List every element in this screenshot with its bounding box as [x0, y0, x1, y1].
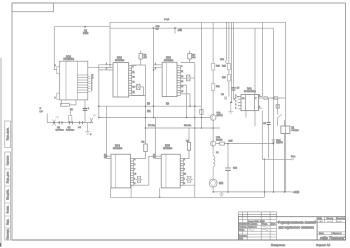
IC DD3 pin numbers — [155, 63, 183, 93]
resistor R13 — [227, 75, 230, 81]
svg-text:0,068мк: 0,068мк — [56, 129, 64, 131]
wire mid vertical x195 — [194, 63, 196, 186]
svg-text:Формирователь команд: Формирователь команд — [278, 221, 317, 225]
svg-text:2: 2 — [184, 159, 185, 161]
wire bottom bus1 — [213, 191, 291, 193]
svg-text:Лист: Лист — [319, 233, 324, 235]
inductor L1 — [213, 150, 215, 179]
svg-text:4: 4 — [184, 164, 185, 166]
svg-text:Вз.инв.: Вз.инв. — [8, 205, 10, 213]
wire vcc rail2 — [110, 27, 273, 29]
resistor R9 — [183, 128, 191, 159]
transistor VT2 — [211, 141, 216, 150]
wire ladder drop DD4 — [130, 186, 132, 197]
svg-text:С8: С8 — [221, 94, 225, 96]
resistor R12 — [227, 64, 230, 70]
paper corner mark — [0, 243, 2, 247]
svg-text:14: 14 — [181, 86, 183, 88]
svg-text:10: 10 — [184, 174, 186, 176]
resistor R2 vertical — [69, 110, 72, 123]
IC DA1 pin numbers — [235, 95, 260, 110]
wire mid bus1 — [99, 105, 201, 107]
title block right grid — [317, 217, 345, 235]
ground gnd2 — [228, 102, 233, 113]
svg-text:13: 13 — [181, 81, 183, 83]
svg-text:R5: R5 — [147, 104, 151, 106]
svg-text:Перв. прим.: Перв. прим. — [8, 127, 10, 140]
svg-text:+: + — [88, 107, 90, 110]
svg-text:SB1: SB1 — [220, 59, 225, 61]
svg-text:12: 12 — [133, 76, 135, 78]
svg-text:DA1: DA1 — [247, 88, 252, 91]
diode VD1 — [132, 84, 144, 95]
wire vcc rail1 — [110, 21, 286, 23]
svg-text:КТ361: КТ361 — [217, 115, 224, 117]
svg-text:0,068мк: 0,068мк — [66, 129, 74, 131]
IC DD1 pin numbers — [55, 65, 94, 100]
svg-text:К176ИЕ4: К176ИЕ4 — [164, 60, 174, 62]
resistor R15 — [220, 142, 225, 145]
node right row — [273, 97, 275, 99]
wire mid connector — [262, 111, 292, 160]
svg-text:R12: R12 — [222, 66, 227, 68]
svg-text:DD3: DD3 — [166, 57, 171, 60]
resistor R1 — [61, 100, 77, 106]
svg-text:15: 15 — [181, 91, 183, 93]
left margin boxes lower — [5, 152, 11, 240]
wire drop x153 — [153, 28, 155, 117]
capacitor C2 — [56, 121, 64, 131]
svg-text:1М: 1М — [192, 57, 195, 59]
svg-text:Подп.: Подп. — [8, 219, 10, 225]
wire DD5 left bus — [155, 118, 157, 159]
diode VD5 box — [276, 105, 280, 109]
svg-text:1,0: 1,0 — [40, 111, 44, 113]
svg-text:12: 12 — [181, 76, 183, 78]
svg-text:R11: R11 — [216, 86, 221, 88]
capacitor C9 — [264, 97, 268, 100]
capacitor C10 — [274, 97, 278, 100]
svg-text:С9: С9 — [263, 123, 267, 125]
IC DD2 — [109, 63, 137, 97]
wire vertical x145 — [132, 65, 146, 144]
node x153 junction — [153, 69, 155, 71]
left margin box upper — [5, 121, 11, 148]
svg-text:Подп.: Подп. — [262, 224, 268, 226]
svg-text:1: 1 — [155, 63, 156, 65]
svg-text:Масштаб: Масштаб — [336, 218, 346, 220]
svg-text:С4: С4 — [78, 127, 82, 129]
wire right long vertical — [285, 22, 287, 192]
svg-text:1: 1 — [134, 178, 135, 180]
relay K1 — [281, 120, 290, 192]
svg-text:1: 1 — [184, 178, 185, 180]
svg-text:ВА1: ВА1 — [219, 182, 224, 185]
svg-text:13: 13 — [153, 157, 155, 159]
node VT area — [145, 105, 214, 128]
svg-text:13: 13 — [133, 81, 135, 83]
svg-text:сайт "Паяльник": сайт "Паяльник" — [320, 236, 346, 240]
resistor R8 — [134, 142, 148, 159]
wire rail2 right vertical — [272, 28, 274, 192]
ground gnd3 — [219, 192, 224, 197]
svg-text:Вых: Вых — [291, 156, 296, 158]
capacitor C5 polar — [83, 100, 90, 123]
svg-text:КД522: КД522 — [276, 142, 283, 144]
node DD2 pins — [109, 64, 110, 65]
svg-text:Инв.подл.: Инв.подл. — [8, 228, 10, 239]
resistor R12 lead — [228, 70, 230, 75]
svg-text:1М: 1М — [144, 57, 147, 59]
svg-text:1: 1 — [235, 107, 236, 109]
svg-text:R13: R13 — [222, 77, 227, 79]
wire bottom left bus — [47, 114, 92, 123]
switch SA1 — [277, 115, 282, 119]
svg-text:5: 5 — [55, 98, 56, 100]
title block doc name — [278, 221, 317, 230]
svg-text:К176ИЕ4: К176ИЕ4 — [115, 60, 125, 62]
IC DD5 — [156, 154, 195, 197]
node DA1 pins — [231, 96, 239, 103]
capacitor C8 — [221, 94, 227, 100]
svg-text:2: 2 — [134, 159, 135, 161]
wire mid bus2 — [99, 117, 211, 119]
svg-text:DD4: DD4 — [115, 145, 120, 148]
node x264 joins — [264, 159, 266, 161]
svg-text:+12В: +12В — [294, 191, 300, 194]
svg-text:4: 4 — [55, 65, 56, 67]
svg-text:Дата: Дата — [271, 224, 277, 226]
svg-text:5: 5 — [184, 183, 185, 185]
svg-text:Копировал: Копировал — [271, 243, 285, 247]
IC DD2 pin numbers — [106, 63, 135, 93]
wire vertical x264 — [263, 159, 265, 197]
IC DD1 — [57, 61, 91, 100]
svg-text:Справ.№: Справ.№ — [7, 155, 10, 165]
ground gnd1 — [85, 123, 92, 136]
node x159 bus — [159, 197, 161, 199]
resistor R10 — [212, 64, 215, 71]
svg-text:С 0,1: С 0,1 — [164, 19, 170, 21]
svg-text:РЭС10: РЭС10 — [292, 130, 300, 132]
svg-text:10к: 10к — [147, 111, 152, 113]
capacitor C3 — [66, 121, 74, 131]
svg-text:Андреев: Андреев — [248, 226, 258, 229]
resistor R16 — [200, 110, 203, 115]
svg-text:5: 5 — [134, 183, 135, 185]
node rail2 junction 2 — [174, 27, 176, 29]
svg-text:2: 2 — [155, 68, 156, 70]
svg-text:6: 6 — [235, 98, 236, 100]
wire DD2 left bus — [88, 65, 113, 118]
svg-text:10: 10 — [134, 174, 136, 176]
wire mid bus3 — [146, 127, 221, 129]
svg-text:как звукового сигнала: как звукового сигнала — [279, 226, 314, 230]
svg-text:КР1006ВИ1: КР1006ВИ1 — [244, 91, 257, 93]
top-left stamp box — [12, 3, 54, 12]
title block signatures — [249, 222, 343, 231]
wire DD5 corner — [149, 156, 156, 185]
speaker BA1 — [209, 179, 217, 192]
resistor R13 lead — [228, 81, 230, 97]
svg-text:R8: R8 — [142, 142, 146, 144]
title block left grid — [239, 217, 318, 240]
svg-text:КТ315: КТ315 — [216, 139, 223, 141]
capacitor C4 — [78, 121, 83, 129]
svg-text:8: 8 — [259, 107, 260, 109]
svg-text:Н.контр.: Н.контр. — [239, 235, 248, 237]
svg-text:Подп. дата: Подп. дата — [8, 171, 10, 183]
svg-text:9: 9 — [133, 66, 134, 68]
svg-text:С12: С12 — [233, 168, 238, 170]
svg-text:0: 0 — [90, 134, 92, 136]
capacitor C12 — [225, 143, 238, 192]
connector +12V — [292, 191, 300, 194]
wire drop x268 — [268, 98, 270, 121]
connector hook SB1 — [225, 61, 228, 64]
wire drops rail1 — [201, 22, 262, 128]
IC DD4 — [107, 154, 149, 188]
resistor R4 — [188, 51, 192, 63]
node mid junctions — [98, 105, 196, 128]
wire DD4 left bus — [106, 106, 108, 158]
wire DA1 bottom — [246, 111, 255, 127]
svg-text:L1: L1 — [216, 152, 219, 154]
svg-text:R10: R10 — [216, 66, 221, 68]
LED HL1 — [53, 116, 60, 126]
resistor R10 lead — [212, 70, 214, 84]
resistor R3 — [132, 51, 146, 65]
svg-text:DD1: DD1 — [66, 56, 72, 59]
title block main — [239, 217, 346, 240]
wire left drop to DD1 — [54, 27, 57, 70]
IC DD3 — [154, 62, 195, 117]
svg-text:Утв.: Утв. — [239, 238, 244, 240]
svg-text:К176ИЕ8: К176ИЕ8 — [163, 148, 173, 150]
paper left edge — [0, 58, 2, 247]
connector out1 — [291, 156, 296, 160]
diode VD3 — [186, 176, 193, 182]
svg-text:R15: R15 — [229, 141, 234, 143]
wire x277 drop — [277, 98, 279, 126]
svg-text:DD2: DD2 — [117, 57, 122, 60]
node bottom joins — [212, 143, 285, 193]
svg-text:7: 7 — [235, 101, 236, 103]
svg-text:R8 10к: R8 10к — [184, 125, 191, 127]
svg-text:11: 11 — [133, 71, 135, 73]
diode VD4 — [272, 140, 275, 143]
svg-text:3: 3 — [259, 95, 260, 97]
svg-text:11: 11 — [181, 71, 183, 73]
svg-text:T: T — [255, 98, 257, 100]
node rail2 junction — [153, 27, 155, 29]
wire x268 bottom — [268, 129, 270, 159]
svg-text:0,1: 0,1 — [156, 29, 160, 31]
transistor VT1 — [210, 90, 216, 141]
svg-text:Лит.: Лит. — [318, 218, 322, 220]
svg-text:DD5: DD5 — [165, 145, 170, 148]
svg-text:R7 10к: R7 10к — [148, 125, 155, 127]
svg-text:Инв.дубл.: Инв.дубл. — [8, 189, 10, 200]
capacitor C7 polar — [232, 88, 240, 100]
LED HL2 — [90, 114, 97, 124]
svg-text:Масса: Масса — [327, 218, 334, 220]
svg-text:15: 15 — [133, 91, 135, 93]
svg-text:4: 4 — [235, 104, 236, 106]
diode VD2 — [136, 176, 143, 182]
svg-text:7: 7 — [91, 90, 92, 92]
svg-text:Листов 1: Листов 1 — [333, 233, 343, 235]
svg-text:PIC16F84: PIC16F84 — [64, 59, 75, 61]
wire top-left rail — [54, 26, 110, 28]
svg-text:9: 9 — [181, 66, 182, 68]
capacitor C11 polar — [263, 121, 271, 130]
svg-text:4: 4 — [134, 164, 135, 166]
svg-text:7: 7 — [134, 169, 135, 171]
svg-text:100н: 100н — [83, 32, 89, 35]
svg-text:Формат А4: Формат А4 — [316, 243, 331, 247]
svg-text:+9В: +9В — [178, 29, 183, 32]
svg-text:К176ИЕ8: К176ИЕ8 — [113, 148, 123, 150]
wire rail link — [109, 22, 111, 66]
left margin boxes text — [7, 155, 10, 239]
svg-text:13: 13 — [104, 157, 106, 159]
wire DA1 right components — [258, 97, 285, 99]
frame bottom emphasis — [12, 239, 346, 241]
svg-text:№ докум.: № докум. — [248, 223, 258, 226]
svg-text:7: 7 — [184, 169, 185, 171]
title block texts — [239, 218, 346, 240]
wire drop x175 — [174, 28, 176, 33]
svg-text:G1: G1 — [242, 98, 244, 100]
wire vertical x159 — [159, 188, 161, 197]
IC DD5 pin numbers — [153, 155, 186, 186]
title block upper extension — [239, 212, 277, 217]
wire VT2 row — [216, 143, 274, 145]
svg-text:С7: С7 — [237, 88, 241, 90]
svg-text:R6: R6 — [166, 104, 170, 106]
svg-text:Радио №6, 2005: Радио №6, 2005 — [248, 220, 265, 223]
resistor R11 — [212, 84, 215, 91]
node junction C1 — [84, 26, 86, 28]
IC DD4 pin numbers — [104, 155, 136, 186]
svg-text:С: С — [40, 108, 42, 110]
IC DA1 — [238, 95, 262, 111]
svg-text:Пров.: Пров. — [239, 230, 245, 232]
capacitor C6 — [186, 75, 194, 81]
wire bottom bus2 — [111, 188, 265, 197]
svg-text:Разраб.: Разраб. — [239, 227, 247, 229]
node DD4 pins — [106, 155, 108, 157]
